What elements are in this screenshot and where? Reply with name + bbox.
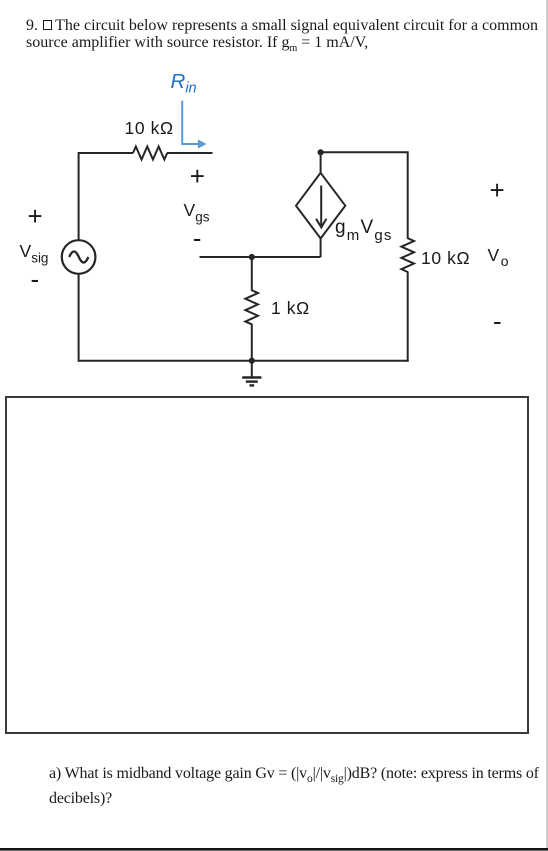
dependent source stub bottom [320, 239, 322, 258]
label - (Vgs) [193, 223, 202, 254]
wire 1k upper lead [251, 257, 253, 291]
dependent current source gmVgs (diamond) [296, 173, 345, 239]
resistor 10k (series, horizontal zigzag) [133, 147, 167, 160]
label Vo [488, 245, 509, 270]
node at ground (junction dot) [249, 358, 255, 364]
Rin measurement arrow (blue) [182, 101, 198, 144]
wire 1k lower lead [251, 324, 253, 361]
label + (Vgs) [190, 161, 205, 192]
question a) text [49, 762, 548, 811]
wire to open gate terminal [167, 152, 213, 154]
ground symbol bars [242, 376, 261, 379]
wire left vertical upper [78, 152, 80, 241]
arrow inside dependent source [316, 186, 326, 228]
dependent source stub top [320, 152, 322, 173]
label 10 kOhm load [421, 248, 470, 269]
node at source (junction dot) [249, 254, 255, 260]
label + (Vsig) [28, 201, 43, 232]
label - (Vsig) [31, 264, 40, 295]
resistor 10k load (vertical zigzag) [401, 238, 414, 272]
resistor 1k (vertical zigzag) [245, 290, 258, 324]
wire top-left horizontal [79, 152, 133, 154]
answer box [5, 396, 529, 734]
wire top-right horizontal [321, 151, 409, 153]
page right border [546, 0, 548, 851]
problem statement text [26, 17, 542, 52]
label + (Vo) [490, 175, 505, 206]
wire right vertical lower [407, 272, 409, 362]
wire left vertical lower [78, 274, 80, 362]
ground stub [251, 361, 253, 377]
wire right vertical upper [407, 152, 409, 238]
node at drain top (junction dot) [318, 149, 324, 155]
wire middle (source node horizontal) [200, 256, 321, 258]
sine symbol inside source [69, 252, 88, 263]
page bottom rule [0, 848, 548, 850]
label gmVgs [335, 217, 393, 244]
label - (Vo) [493, 306, 502, 337]
label 1 kOhm [271, 298, 310, 319]
wire bottom horizontal [79, 360, 409, 362]
label Vsig [20, 241, 49, 266]
label Vgs [184, 200, 210, 225]
label Rin (blue) [171, 70, 197, 97]
label 10 kOhm series [125, 118, 174, 139]
voltage source Vsig (circle) [62, 240, 96, 274]
